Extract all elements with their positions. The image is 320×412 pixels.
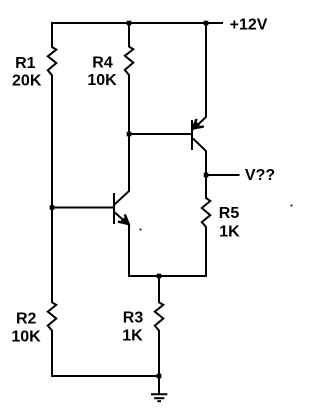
svg-text:V??: V?? [245, 167, 275, 184]
svg-text:R3: R3 [123, 309, 144, 326]
svg-text:R1: R1 [15, 55, 36, 72]
svg-text:+12V: +12V [230, 17, 268, 34]
svg-text:20K: 20K [12, 73, 42, 90]
svg-text:R2: R2 [16, 311, 37, 328]
svg-text:10K: 10K [11, 328, 41, 345]
svg-text:R4: R4 [92, 55, 113, 72]
svg-text:1K: 1K [122, 328, 143, 345]
svg-text:10K: 10K [87, 72, 117, 89]
svg-text:R5: R5 [219, 205, 240, 222]
svg-text:1K: 1K [219, 224, 240, 241]
